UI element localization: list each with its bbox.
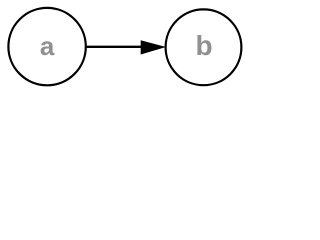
svg-text:b: b — [195, 30, 212, 61]
svg-text:a: a — [40, 31, 55, 61]
node b (circle) — [166, 9, 242, 85]
node a (circle) — [8, 8, 85, 85]
edge a to b (wire) — [85, 46, 146, 48]
arrowhead of edge a to b — [141, 40, 166, 54]
